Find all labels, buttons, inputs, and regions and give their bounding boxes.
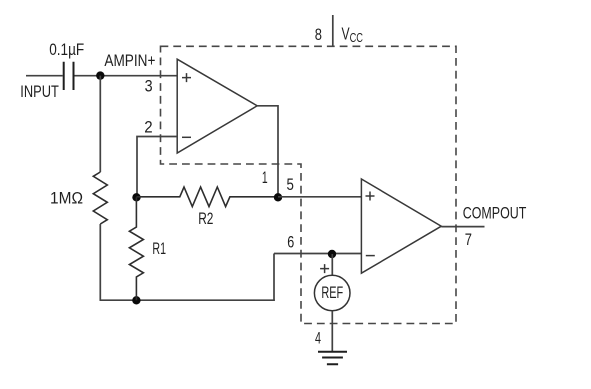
wire: INPUT lead to capacitor <box>26 75 63 77</box>
svg-text:COMPOUT: COMPOUT <box>463 205 527 223</box>
svg-text:7: 7 <box>465 231 472 249</box>
voltage reference REF (circle) <box>314 275 350 311</box>
U1B inverting input - symbol <box>366 255 375 257</box>
wire: VCC stub (pin 8) <box>332 15 334 46</box>
wire: rail up to pin 6 level <box>273 254 275 302</box>
U1A noninverting input + symbol <box>182 73 191 82</box>
op-amp U1B body (comparator) <box>361 179 441 273</box>
IC package outline (dashed) <box>161 46 457 323</box>
svg-text:CC: CC <box>350 30 363 45</box>
svg-text:2: 2 <box>144 119 152 137</box>
resistor R2 (horizontal) with leads <box>137 187 279 207</box>
U1A inverting input - symbol <box>182 136 191 138</box>
resistor R1 (vertical) with leads <box>129 197 143 300</box>
ground symbol <box>318 352 347 364</box>
svg-text:4: 4 <box>315 329 321 347</box>
wire: bottom feedback rail <box>100 299 275 301</box>
svg-text:REF: REF <box>321 284 343 302</box>
node: pin 5 junction <box>274 193 282 201</box>
svg-text:0.1µF: 0.1µF <box>49 41 84 59</box>
resistor 1M ohm (vertical) <box>93 172 107 224</box>
svg-text:R2: R2 <box>198 210 213 228</box>
svg-text:1: 1 <box>262 169 268 187</box>
wire: comparator output COMPOUT (pin 7) <box>441 226 484 228</box>
wire: U1A output (pin 1) right and down to pin 5 node <box>257 106 278 197</box>
node: feedback junction (pin2 / R1 / R2) <box>132 193 140 201</box>
wire: 1M bottom lead down to bottom rail <box>99 224 101 300</box>
op-amp U1A body (top amplifier) <box>177 59 257 153</box>
wire: pin 2 from inverting input left and down to feedback node <box>137 137 177 198</box>
svg-text:R1: R1 <box>152 240 166 258</box>
wire: AMPIN+ node down to 1M resistor <box>99 76 101 172</box>
label + (reference polarity) <box>320 264 329 273</box>
wire: reference to ground (pin 4) <box>331 311 333 352</box>
svg-text:5: 5 <box>287 176 294 194</box>
svg-text:INPUT: INPUT <box>20 83 59 101</box>
capacitor C1 plates <box>64 62 74 90</box>
node: R1 bottom junction <box>132 296 140 304</box>
node: AMPIN+ junction <box>96 71 104 79</box>
svg-text:AMPIN+: AMPIN+ <box>104 52 155 70</box>
wire: capacitor to op-amp pin 3 (AMPIN+ net) <box>75 75 178 77</box>
U1B noninverting input + symbol <box>366 192 375 201</box>
svg-text:3: 3 <box>145 77 153 95</box>
node: REF junction on pin 6 wire <box>328 250 336 258</box>
svg-text:8: 8 <box>315 26 322 44</box>
svg-text:1MΩ: 1MΩ <box>50 189 83 207</box>
wire: node to comparator pin 5 <box>278 196 362 198</box>
svg-text:6: 6 <box>287 234 294 252</box>
wire: junction down to reference <box>331 254 333 275</box>
wire: pin 6 horizontal into comparator inverting input <box>274 253 362 255</box>
